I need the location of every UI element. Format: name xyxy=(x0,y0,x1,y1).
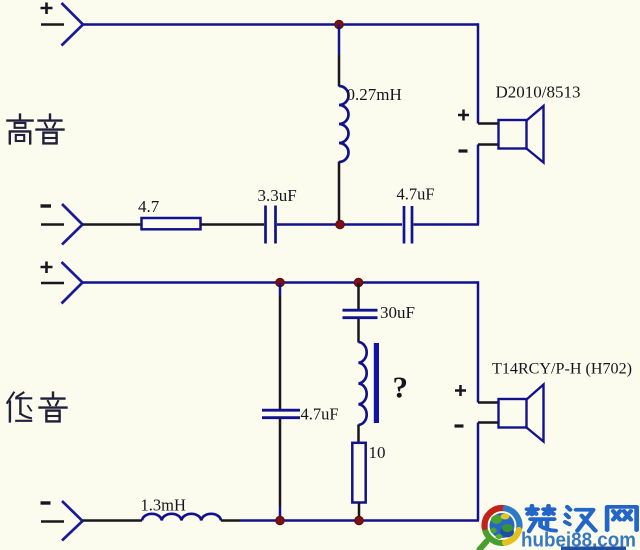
terminal T4 stub xyxy=(41,520,64,523)
speaker SP2 stub bottom xyxy=(478,421,499,424)
speaker SP1 stub top xyxy=(478,122,499,125)
wire L3 to right xyxy=(221,519,240,522)
capacitor C4 xyxy=(343,310,378,318)
svg-text:4.7: 4.7 xyxy=(138,197,160,216)
node J3 xyxy=(276,278,285,287)
terminal T2 stub xyxy=(41,223,64,226)
wire R1 to C1 xyxy=(201,223,265,226)
svg-text:T14RCY/P-H (H702): T14RCY/P-H (H702) xyxy=(492,361,632,378)
terminal T4 minus sign xyxy=(41,501,51,504)
speaker SP1 plus xyxy=(458,110,469,121)
capacitor C2 xyxy=(404,206,412,244)
terminal T3 plus sign xyxy=(41,262,53,274)
terminal T1 arrow xyxy=(62,3,84,46)
wire right vertical bottom lower xyxy=(477,423,480,521)
speaker SP2 stub top xyxy=(478,401,499,404)
svg-text:10: 10 xyxy=(369,443,386,462)
svg-text:4.7uF: 4.7uF xyxy=(397,185,435,204)
wire C1 to C2 xyxy=(277,223,402,226)
resistor R2 lead bottom xyxy=(358,503,361,521)
capacitor C3 lead bottom xyxy=(279,419,282,506)
watermark logo globe xyxy=(480,508,520,549)
speaker SP1 horn xyxy=(527,106,544,163)
wire C2 to right xyxy=(414,223,480,226)
wire right vertical lower xyxy=(477,145,480,225)
node J2 xyxy=(336,220,345,229)
label 低音 xyxy=(7,393,66,422)
speaker SP2 plus xyxy=(455,385,466,396)
watermark text 楚汉网 xyxy=(527,506,637,532)
wire minus to L3 xyxy=(83,519,143,522)
resistor R2 xyxy=(352,443,365,503)
svg-text:D2010/8513: D2010/8513 xyxy=(496,83,581,102)
speaker SP2 body xyxy=(499,399,527,428)
speaker SP2 minus xyxy=(455,424,464,427)
inductor L2 lead top xyxy=(357,319,360,343)
inductor L2 core bar xyxy=(374,343,379,423)
speaker SP1 body xyxy=(499,120,527,149)
speaker SP1 minus xyxy=(459,149,468,152)
node J6 xyxy=(355,516,364,525)
svg-text:?: ? xyxy=(393,370,409,405)
terminal T1 stub xyxy=(41,23,64,26)
resistor R1 xyxy=(142,218,201,229)
inductor L1 coil xyxy=(339,86,349,162)
terminal T2 arrow xyxy=(62,204,83,245)
terminal T2 minus sign xyxy=(41,204,52,207)
wire bottom plus line xyxy=(83,281,479,284)
wire minus to R1 xyxy=(83,223,142,226)
speaker SP2 horn xyxy=(527,385,544,442)
terminal T3 stub xyxy=(41,282,64,285)
node J5 xyxy=(276,516,285,525)
terminal T1 plus sign xyxy=(41,3,53,15)
capacitor C4 lead top xyxy=(357,283,360,309)
speaker SP1 stub bottom xyxy=(478,143,499,146)
capacitor C3 lead top xyxy=(279,283,282,297)
wire right vertical bottom upper xyxy=(477,281,480,402)
wire top plus line xyxy=(83,23,478,26)
label 高音 xyxy=(7,115,63,144)
node J1 xyxy=(335,20,344,29)
svg-text:3.3uF: 3.3uF xyxy=(258,186,297,205)
svg-text:0.27mH: 0.27mH xyxy=(347,85,402,104)
svg-text:4.7uF: 4.7uF xyxy=(301,405,339,424)
inductor L1 lead top xyxy=(338,25,341,56)
watermark bottom strip xyxy=(561,547,626,550)
inductor L2 lead bottom xyxy=(357,425,360,444)
inductor L3 coil xyxy=(142,514,221,521)
capacitor C3 xyxy=(262,410,300,418)
terminal T4 arrow xyxy=(62,501,83,541)
wire right vertical upper xyxy=(477,23,480,123)
svg-text:1.3mH: 1.3mH xyxy=(141,496,186,515)
terminal T3 arrow xyxy=(62,262,83,304)
svg-text:30uF: 30uF xyxy=(380,303,415,322)
inductor L2 coil xyxy=(359,342,367,425)
node J4 xyxy=(354,278,363,287)
capacitor C1 xyxy=(266,206,276,244)
inductor L1 lead bottom xyxy=(338,162,341,225)
